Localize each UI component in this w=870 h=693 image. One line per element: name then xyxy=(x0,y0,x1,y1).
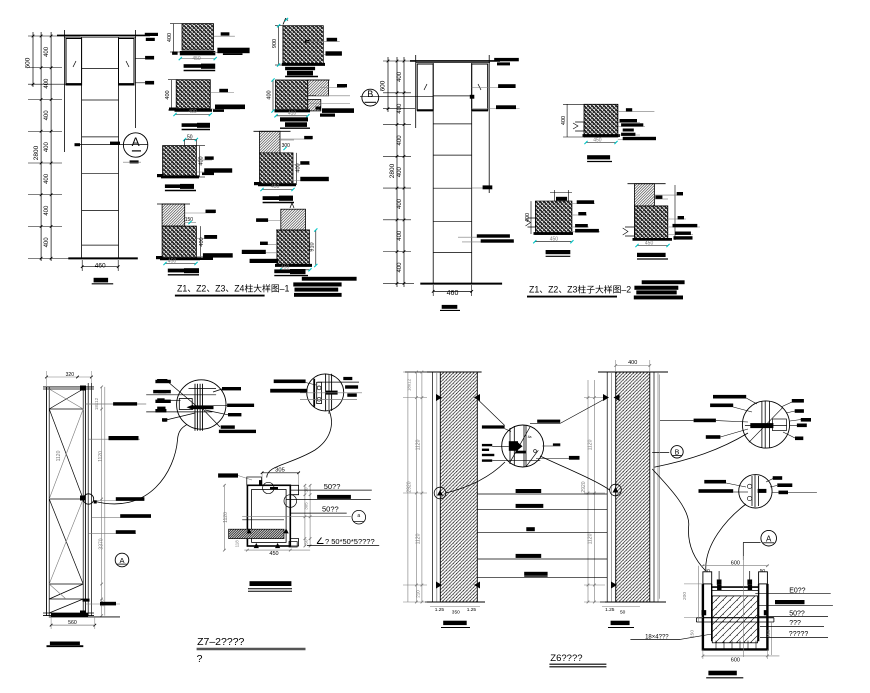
truss leader 4mm at 404 xyxy=(85,403,146,405)
detail circle 4 left leaders xyxy=(713,395,746,399)
column elevation 1 - top cap line xyxy=(57,34,150,36)
svg-text:A: A xyxy=(119,556,124,565)
detail circle 4 right leaders xyxy=(792,399,804,403)
leader curve from circle 2 to Z7-2B detail xyxy=(267,410,332,477)
wall right - top dim 400 xyxy=(616,365,650,367)
svg-text:400: 400 xyxy=(44,78,50,89)
section cut line A right xyxy=(743,541,760,543)
svg-text:450: 450 xyxy=(269,551,278,557)
svg-text:400: 400 xyxy=(44,46,50,57)
column elevation 2 - top cap line xyxy=(410,60,500,62)
detail circle 3 right leaders xyxy=(537,420,560,423)
truss bottom leader xyxy=(85,603,120,605)
detail R3 dim 150 xyxy=(654,198,668,200)
leader curve circle3 to right wall node xyxy=(540,456,610,490)
detail Z1-2 concrete section xyxy=(283,26,323,65)
svg-text:560: 560 xyxy=(68,620,77,626)
wall right - bottom line xyxy=(600,601,666,603)
detail Z4B concrete xyxy=(277,230,310,265)
wall left - label xyxy=(443,621,467,625)
detail R1 concrete section xyxy=(584,104,618,137)
Z7-2B label xyxy=(250,581,292,586)
svg-text:50: 50 xyxy=(187,134,193,140)
Z7-2B angle leader xyxy=(307,545,379,547)
wall right - face lines xyxy=(606,372,608,602)
long leaders between walls xyxy=(477,493,607,495)
column elevation 2 - grid line left xyxy=(415,55,417,128)
section cut line at A xyxy=(75,144,148,146)
column 2 label blob xyxy=(442,305,458,309)
U detail outer channel xyxy=(703,584,768,650)
svg-text:400: 400 xyxy=(44,237,50,248)
leader curve from truss node to circle 1 xyxy=(93,425,187,504)
detail Z4B top mark xyxy=(290,203,294,208)
notes block 2 xyxy=(642,280,685,284)
detail Z4B label xyxy=(274,269,296,273)
detail Z3-1B dim 300 xyxy=(280,139,294,141)
detail Z4B leaders left xyxy=(256,220,281,222)
svg-text:400: 400 xyxy=(397,103,403,114)
column elevation 2 - weld marks xyxy=(424,84,427,90)
svg-text:Z1、Z2、Z3、Z4柱大样图–1: Z1、Z2、Z3、Z4柱大样图–1 xyxy=(177,283,290,294)
detail Z3-1B label xyxy=(263,196,285,200)
detail circle 5 right leaders xyxy=(773,476,783,480)
detail circle 4 internals xyxy=(761,402,763,449)
svg-text:400: 400 xyxy=(397,167,403,178)
detail Z3-1B bottom dim 450 xyxy=(262,189,293,191)
svg-text:A: A xyxy=(766,534,772,543)
column elevation 2 - rungs xyxy=(433,95,472,97)
detail Z1-1 leaders xyxy=(214,35,235,37)
svg-text:600: 600 xyxy=(731,657,740,663)
Z7-2B mid lines xyxy=(242,516,351,518)
detail Z4-1 leaders xyxy=(185,212,215,214)
detail Z1-2C bottom dim xyxy=(276,115,308,117)
wall right - node circle xyxy=(610,484,622,496)
detail Z2-1B top dim 50 xyxy=(185,139,197,141)
svg-text:50??: 50?? xyxy=(324,482,341,491)
Z7-2B bolts bottom xyxy=(246,528,251,533)
column 1 bottom dim 460 xyxy=(82,266,118,268)
right vertical grid line xyxy=(659,375,661,599)
truss top chord xyxy=(43,386,94,388)
leader curve circle4 to wall xyxy=(655,433,748,467)
svg-text:400: 400 xyxy=(267,90,273,99)
svg-text:600: 600 xyxy=(25,57,32,68)
svg-text:450: 450 xyxy=(168,258,177,264)
svg-text:400: 400 xyxy=(44,205,50,216)
Z7-2B bottom dim xyxy=(244,549,310,551)
detail Z1-1 bottom dim 450 xyxy=(180,58,215,60)
U detail right dims xyxy=(771,622,773,655)
detail circle 1 right leader texts xyxy=(222,387,241,390)
detail R1 left dim 400 xyxy=(566,104,568,137)
svg-text:2800: 2800 xyxy=(33,145,40,160)
U detail top flange xyxy=(712,586,759,588)
detail Z3-1B concrete xyxy=(260,153,294,185)
detail Z2-1 bottom dim xyxy=(175,114,210,116)
svg-text:400: 400 xyxy=(561,116,567,125)
detail R1 left bracket xyxy=(575,122,584,131)
leader blob below A xyxy=(130,160,139,163)
detail R2 top dim xyxy=(553,190,555,201)
svg-text:400: 400 xyxy=(397,71,403,82)
column 2 bottom dim 460 xyxy=(433,290,472,292)
detail circle 2 xyxy=(307,374,344,411)
section cut line at B xyxy=(360,96,433,98)
svg-text:910: 910 xyxy=(309,242,315,251)
truss gusset blobs xyxy=(80,386,86,391)
detail Z4B right dim 910 xyxy=(315,230,317,266)
svg-text:50: 50 xyxy=(705,568,711,574)
detail circle 2 internals xyxy=(313,379,315,407)
svg-text:3370: 3370 xyxy=(98,538,104,549)
detail Z1-1 left dim 400 xyxy=(173,24,175,52)
Z7-2B top dim 305 xyxy=(262,472,299,474)
svg-text:450: 450 xyxy=(593,137,602,143)
svg-text:? 50*50*5????: ? 50*50*5???? xyxy=(325,537,375,546)
column 1 label blob xyxy=(94,278,109,283)
svg-text:Z7–2????: Z7–2???? xyxy=(197,636,244,648)
leader curve from wall node to circle 3 xyxy=(446,462,505,493)
detail R2 bottom dim 450 xyxy=(535,241,572,243)
svg-text:E0??: E0?? xyxy=(789,587,805,594)
detail Z2-1B right dim xyxy=(199,146,201,177)
detail Z1-2C leaders xyxy=(320,87,345,89)
detail Z2-1 label xyxy=(182,123,202,127)
column 2 mid leaders xyxy=(472,187,483,189)
svg-text:305: 305 xyxy=(304,502,309,510)
detail Z1-1 label xyxy=(184,64,204,68)
svg-text:4a: 4a xyxy=(528,435,532,439)
U detail bottom ticks xyxy=(715,641,717,650)
svg-text:350: 350 xyxy=(452,610,460,616)
detail R3 right line xyxy=(674,185,676,240)
detail R1 label xyxy=(587,155,610,159)
svg-text:?????: ????? xyxy=(789,631,809,638)
detail circle 3 xyxy=(502,425,544,467)
truss column chords xyxy=(46,387,48,616)
wall left - bottom line xyxy=(425,601,485,603)
U detail top dim 600 xyxy=(702,565,769,567)
svg-text:450: 450 xyxy=(192,56,201,62)
Z7-2B right leaders xyxy=(290,489,372,491)
svg-text:50: 50 xyxy=(760,568,766,574)
wall left - top line xyxy=(405,371,482,373)
wall right - dim chain xyxy=(587,380,589,602)
detail circle 1 internals xyxy=(194,384,196,431)
wall left - node marks xyxy=(436,394,442,401)
detail Z4-1 concrete xyxy=(162,226,196,259)
detail R2 left bracket xyxy=(528,218,536,227)
svg-text:400: 400 xyxy=(44,141,50,152)
svg-text:400: 400 xyxy=(628,360,637,366)
detail Z1-2 left dim 900 xyxy=(278,26,280,65)
Z7-2B small circle right xyxy=(352,510,366,524)
Z7-2B outer tube xyxy=(247,485,290,546)
U detail center line xyxy=(742,556,744,657)
column elevation 1 - dim chain inner line xyxy=(50,32,52,261)
column elevation 2 - dim chains xyxy=(387,57,389,112)
svg-text:150: 150 xyxy=(185,217,194,223)
svg-text:400: 400 xyxy=(167,33,173,42)
detail R2 concrete section xyxy=(535,201,572,234)
svg-text:118: 118 xyxy=(235,540,240,548)
detail circle 5 left leaders xyxy=(704,480,726,484)
detail circle 3 left leaders xyxy=(482,425,505,428)
svg-text:Z1、Z2、Z3柱子大样图–2: Z1、Z2、Z3柱子大样图–2 xyxy=(529,284,631,295)
detail Z1-2 label xyxy=(285,67,315,70)
column elevation 2 - ground line xyxy=(420,283,502,285)
detail circle 1 xyxy=(177,380,226,429)
svg-text:450: 450 xyxy=(645,240,654,246)
svg-text:a: a xyxy=(357,513,360,519)
svg-text:460: 460 xyxy=(95,262,106,269)
svg-text:210: 210 xyxy=(415,590,420,598)
svg-text:460: 460 xyxy=(447,290,459,297)
svg-text:400: 400 xyxy=(397,135,403,146)
svg-text:600: 600 xyxy=(731,561,740,567)
U detail mid ledge xyxy=(696,617,774,619)
U detail right leaders xyxy=(755,593,830,595)
truss mid leader xyxy=(88,438,140,440)
column 1 top leaders xyxy=(135,34,148,36)
svg-text:400: 400 xyxy=(397,198,403,209)
detail circle 5 internals xyxy=(751,476,753,506)
truss label xyxy=(50,642,80,646)
svg-text:400: 400 xyxy=(397,230,403,241)
column elevation 2 - left capital box xyxy=(417,64,433,110)
column elevation 1 - column right edge xyxy=(118,37,120,258)
leader curve wallB to U detail xyxy=(652,469,706,571)
section marker B right xyxy=(671,446,683,458)
detail Z4-1 bottom dim 450 xyxy=(165,263,196,265)
Z7-2B top flange lip xyxy=(290,485,298,494)
detail Z4B bottom dim 450 xyxy=(280,269,310,271)
detail circle 5 xyxy=(739,475,772,508)
wall left - hatched body xyxy=(440,372,477,602)
svg-text:1120: 1120 xyxy=(223,512,229,523)
detail R3 concrete xyxy=(634,206,667,239)
svg-text:400: 400 xyxy=(188,109,197,115)
column elevation 1 - chain ticks and ext lines xyxy=(28,35,80,37)
detail Z1-2C label xyxy=(280,117,308,121)
Z7-2B inner tube xyxy=(252,490,287,543)
detail Z3-1B right dim xyxy=(296,153,298,185)
svg-text:400: 400 xyxy=(397,262,403,273)
detail R3 leaders xyxy=(654,194,683,196)
detail circle 1 left leader texts xyxy=(157,379,167,382)
detail circle 3 internals xyxy=(509,428,511,464)
detail Z2-1B steel flange xyxy=(163,146,197,177)
truss top leaders xyxy=(155,380,170,383)
svg-text:200: 200 xyxy=(682,592,688,600)
svg-text:1120: 1120 xyxy=(98,451,104,462)
detail Z4-1 right dim xyxy=(199,226,201,259)
detail circle 2 right leaders xyxy=(318,381,360,383)
detail R3 left bracket xyxy=(625,227,634,236)
truss node circle xyxy=(83,494,93,504)
svg-text:1120: 1120 xyxy=(415,533,421,544)
truss right dim chain xyxy=(101,387,103,616)
detail circle 2 left leaders xyxy=(274,380,306,384)
detail Z3-1B leaders xyxy=(280,138,312,140)
svg-text:18x12: 18x12 xyxy=(407,378,412,391)
truss bottom chord blob xyxy=(51,613,88,617)
svg-text:1.25: 1.25 xyxy=(605,607,615,613)
svg-text:400: 400 xyxy=(44,173,50,184)
detail Z1-2 leaders xyxy=(306,41,340,43)
detail Z4-1 steel top xyxy=(162,204,185,226)
Z7-2B bolts top xyxy=(259,480,262,485)
detail Z1-2 inner mark xyxy=(305,40,309,43)
column elevation 1 - ground line xyxy=(68,257,138,259)
svg-text:1.25: 1.25 xyxy=(435,607,445,613)
column elevation 1 - dim chain 2800 line xyxy=(40,32,42,261)
Z7-2B bottom flange lip xyxy=(290,539,298,546)
svg-text:2800: 2800 xyxy=(389,163,396,178)
detail circle 1 left leader lines xyxy=(168,382,198,407)
column 2 lower leaders xyxy=(458,236,510,238)
svg-text:1120: 1120 xyxy=(587,439,593,450)
U detail bottom dim 600 xyxy=(703,655,780,657)
svg-text:600: 600 xyxy=(379,80,386,91)
truss bottom chord xyxy=(43,612,94,614)
svg-text:2920: 2920 xyxy=(581,481,587,492)
svg-text:?: ? xyxy=(197,653,203,665)
truss section marker A xyxy=(115,553,129,567)
column elevation 2 - right capital box xyxy=(472,64,488,110)
svg-text:450: 450 xyxy=(550,237,559,243)
truss diagonals xyxy=(49,389,83,409)
notes block 1 xyxy=(302,277,357,281)
detail circle 4 xyxy=(742,401,789,448)
detail Z4-1 label xyxy=(168,269,188,273)
detail Z2-1B leaders xyxy=(196,159,212,161)
detail Z2-1 leaders xyxy=(210,92,234,94)
svg-text:400: 400 xyxy=(165,90,171,99)
detail Z1-2 flag xyxy=(283,19,288,25)
truss bottom dim 560 xyxy=(51,624,95,626)
svg-text:320: 320 xyxy=(66,372,75,378)
svg-text:1120: 1120 xyxy=(56,450,62,461)
detail Z1-2C concrete section xyxy=(276,80,308,111)
wall left - dim chain xyxy=(407,372,409,602)
section marker B circle xyxy=(362,89,379,106)
svg-text:150: 150 xyxy=(766,630,772,638)
svg-text:???: ??? xyxy=(789,620,801,627)
truss horizontal struts xyxy=(49,408,83,410)
detail Z4B steel top xyxy=(281,209,306,230)
svg-text:400: 400 xyxy=(44,110,50,121)
column elevation 1 - weld mark left xyxy=(73,61,76,67)
U detail bolts top xyxy=(717,580,722,585)
U detail label xyxy=(708,671,736,676)
detail R3 bottom dim 450 xyxy=(637,245,668,247)
detail Z2-1B label xyxy=(165,184,185,188)
leader curve circle5 to U detail xyxy=(706,504,746,569)
detail R2 leaders xyxy=(572,203,595,205)
wall right - label xyxy=(611,621,630,625)
detail Z3-1B steel top xyxy=(260,131,281,153)
svg-text:400: 400 xyxy=(198,156,204,165)
svg-text:2920: 2920 xyxy=(407,481,413,492)
detail R3 label xyxy=(637,253,666,257)
U detail left dims xyxy=(698,566,700,622)
wall left - face lines xyxy=(432,372,434,602)
column 2 top leaders xyxy=(489,60,500,62)
svg-text:1120: 1120 xyxy=(415,439,421,450)
Z7-2B hatch band xyxy=(229,529,284,538)
svg-text:B: B xyxy=(367,89,373,99)
detail R2 label xyxy=(546,250,571,254)
svg-text:900: 900 xyxy=(272,39,278,48)
column elevation 1 - column left edge xyxy=(81,37,83,258)
svg-text:410: 410 xyxy=(288,111,297,117)
detail R1 bottom dim 450 xyxy=(586,142,616,144)
wall right - hatched body xyxy=(616,372,650,602)
U detail posts xyxy=(703,572,712,584)
column elevation 1 - grid line right xyxy=(134,30,136,128)
column elevation 1 - right capital box xyxy=(119,39,135,86)
detail Z1-1 concrete section xyxy=(182,24,214,50)
detail R1 leaders xyxy=(618,111,655,113)
section marker A circle xyxy=(123,133,147,157)
svg-text:50??: 50?? xyxy=(322,505,339,514)
svg-text:1.25: 1.25 xyxy=(467,607,477,613)
column elevation 1 - grid line left xyxy=(64,30,66,152)
Z7-2B top-left hat xyxy=(247,477,262,485)
detail R3 steel top xyxy=(634,184,654,206)
Z7-2B left dim xyxy=(223,485,225,550)
Z7-2B top-left leader 18x4 xyxy=(218,473,238,477)
svg-text:1120: 1120 xyxy=(587,533,593,544)
truss ground line xyxy=(49,616,120,618)
column elevation 1 - weld mark right xyxy=(126,61,129,67)
detail R2 left dim xyxy=(530,201,532,234)
column elevation 2 - grid line right xyxy=(488,55,490,193)
svg-text:Z6????: Z6???? xyxy=(550,653,582,664)
U detail inner hatched block xyxy=(712,596,757,643)
svg-text:305: 305 xyxy=(275,468,285,474)
truss node leaders xyxy=(94,500,144,502)
Z7-2B right dims xyxy=(304,485,306,546)
wall left - node circle xyxy=(434,487,446,499)
detail Z2-1 left dim 400 xyxy=(171,80,173,110)
detail Z2-1 concrete section xyxy=(176,80,210,109)
truss top dim 320 xyxy=(47,376,92,378)
svg-text:50??: 50?? xyxy=(789,610,805,617)
column elevation 2 - column right edge xyxy=(471,63,473,284)
section marker A right xyxy=(761,530,777,546)
svg-text:50: 50 xyxy=(620,610,626,616)
svg-text:50: 50 xyxy=(304,539,309,545)
detail Z1-2C steel part xyxy=(308,80,329,96)
svg-text:A: A xyxy=(132,135,140,149)
svg-text:450: 450 xyxy=(271,184,280,190)
column elevation 1 - left capital box xyxy=(66,39,82,86)
wall right - node marks xyxy=(603,394,609,401)
detail Z1-2C top dim xyxy=(272,80,274,111)
column elevation 1 - rungs xyxy=(82,68,119,70)
column elevation 2 - column left edge xyxy=(432,63,434,284)
column elevation 1 - dim chain outer line xyxy=(32,32,34,87)
